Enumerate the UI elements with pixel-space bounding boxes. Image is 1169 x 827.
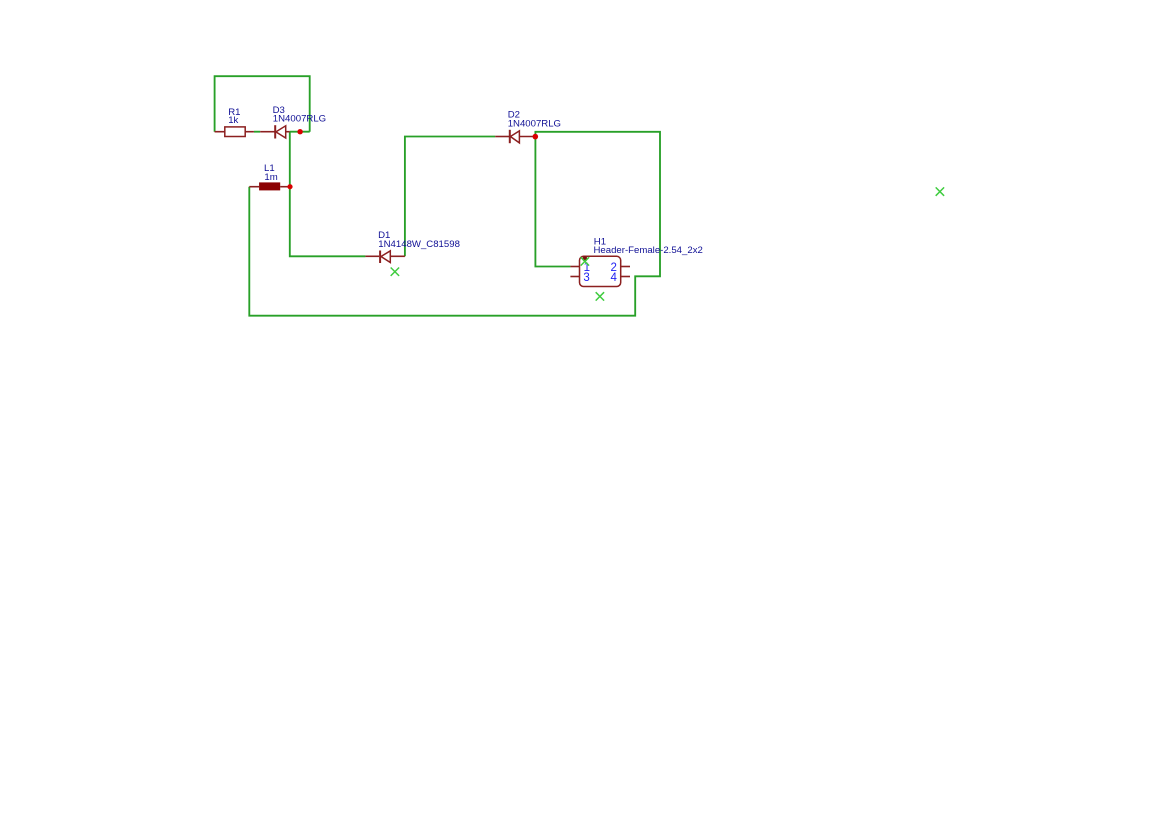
svg-text:4: 4: [611, 272, 618, 284]
inductor L1: [249, 182, 289, 190]
no-connect flag below D1: [391, 268, 399, 276]
svg-text:1N4007RLG: 1N4007RLG: [508, 119, 561, 130]
svg-text:1N4007RLG: 1N4007RLG: [273, 113, 326, 124]
wire D2 cathode node down to H1 pin1: [535, 137, 570, 267]
pin 1 marker dot: [582, 256, 587, 261]
wire D1 cathode up to D2 anode: [405, 137, 495, 257]
no-connect flag far right: [936, 187, 944, 195]
diode D3: [260, 125, 290, 138]
diode D1: [365, 251, 405, 264]
wire top-left loop: [215, 76, 310, 132]
wire L1 node down to D1 anode: [290, 187, 366, 257]
wire top-right horizontal into D3 cathode node: [290, 131, 310, 133]
svg-text:1N4148W_C81598: 1N4148W_C81598: [378, 239, 460, 250]
wire vertical D3 node down to L1 node: [289, 132, 291, 187]
svg-text:1m: 1m: [264, 172, 277, 183]
no-connect flag below H1: [596, 292, 604, 300]
wire short segment between R1 and D3: [254, 131, 260, 133]
resistor R1: [215, 127, 254, 137]
junction at D3 cathode net: [297, 129, 302, 134]
svg-text:1k: 1k: [228, 115, 238, 126]
svg-text:3: 3: [583, 272, 589, 284]
junction at L1 right: [287, 184, 292, 189]
diode D2: [495, 130, 535, 143]
wire L1 left lead down and bottom rail to H1 step: [249, 132, 660, 316]
header H1: [570, 256, 630, 286]
svg-text:Header-Female-2.54_2x2: Header-Female-2.54_2x2: [594, 245, 703, 256]
junction at D2 cathode: [533, 134, 539, 140]
no-connect flag on H1 pin1: [581, 257, 589, 265]
